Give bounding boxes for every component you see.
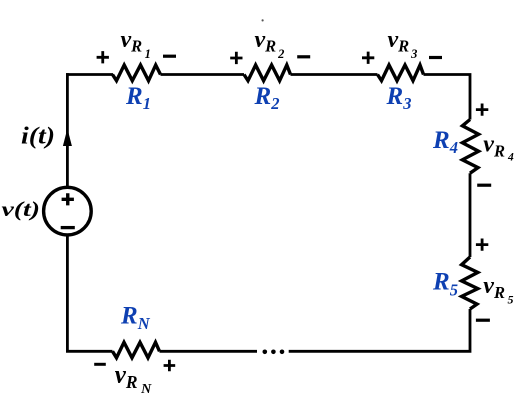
plus sign of vR2	[230, 52, 242, 64]
resistor R4	[462, 120, 478, 174]
svg-text:vR5: vR5	[483, 273, 513, 307]
plus sign of vRN	[164, 360, 176, 372]
svg-text:vR2: vR2	[255, 27, 285, 61]
svg-text:R2: R2	[254, 83, 280, 113]
svg-text:R1: R1	[125, 83, 151, 113]
plus sign of vR3	[362, 52, 374, 64]
plus sign inside source	[62, 193, 74, 205]
plus sign of vR4	[476, 104, 488, 116]
minus sign of vR5	[476, 319, 490, 322]
svg-text:R5: R5	[432, 269, 458, 300]
minus sign of vR3	[429, 56, 442, 59]
svg-text:i(t): i(t)	[21, 124, 55, 150]
speck artifact	[262, 19, 264, 21]
resistor R2	[244, 65, 291, 81]
wire R1 to R2	[161, 73, 245, 76]
minus sign of vR4	[477, 184, 491, 187]
svg-text:vR3: vR3	[388, 27, 418, 61]
wire RN to bottom-left corner	[67, 237, 112, 352]
svg-text:vR1: vR1	[121, 27, 151, 61]
minus sign inside source	[61, 226, 75, 229]
wire source to top-left corner	[66, 73, 69, 187]
minus sign of vR2	[297, 55, 310, 58]
svg-text:R3: R3	[386, 83, 412, 113]
minus sign of vR1	[163, 55, 176, 58]
minus sign of vRN	[94, 363, 106, 366]
plus sign of vR1	[97, 51, 109, 63]
resistor RN	[113, 342, 160, 358]
wire R4 to R5	[469, 173, 472, 257]
resistor R5	[462, 257, 478, 309]
wire R3 to top-right corner	[424, 75, 471, 120]
wire R2 to R3	[291, 73, 378, 76]
ellipsis dots	[263, 350, 268, 355]
svg-text:vR4: vR4	[483, 132, 514, 164]
svg-text:vRN: vRN	[115, 362, 152, 398]
resistor R1	[113, 65, 161, 81]
wire dots to RN	[160, 350, 258, 353]
svg-text:R4: R4	[432, 127, 458, 157]
voltage source V	[44, 187, 92, 235]
resistor R3	[378, 65, 424, 81]
wire R5 to bottom-right corner	[289, 309, 470, 351]
current arrow i(t)	[63, 129, 72, 147]
svg-text:RN: RN	[120, 303, 151, 334]
plus sign of vR5	[476, 239, 488, 251]
svg-text:v(t): v(t)	[2, 197, 41, 221]
wire top-left to R1	[66, 73, 113, 76]
